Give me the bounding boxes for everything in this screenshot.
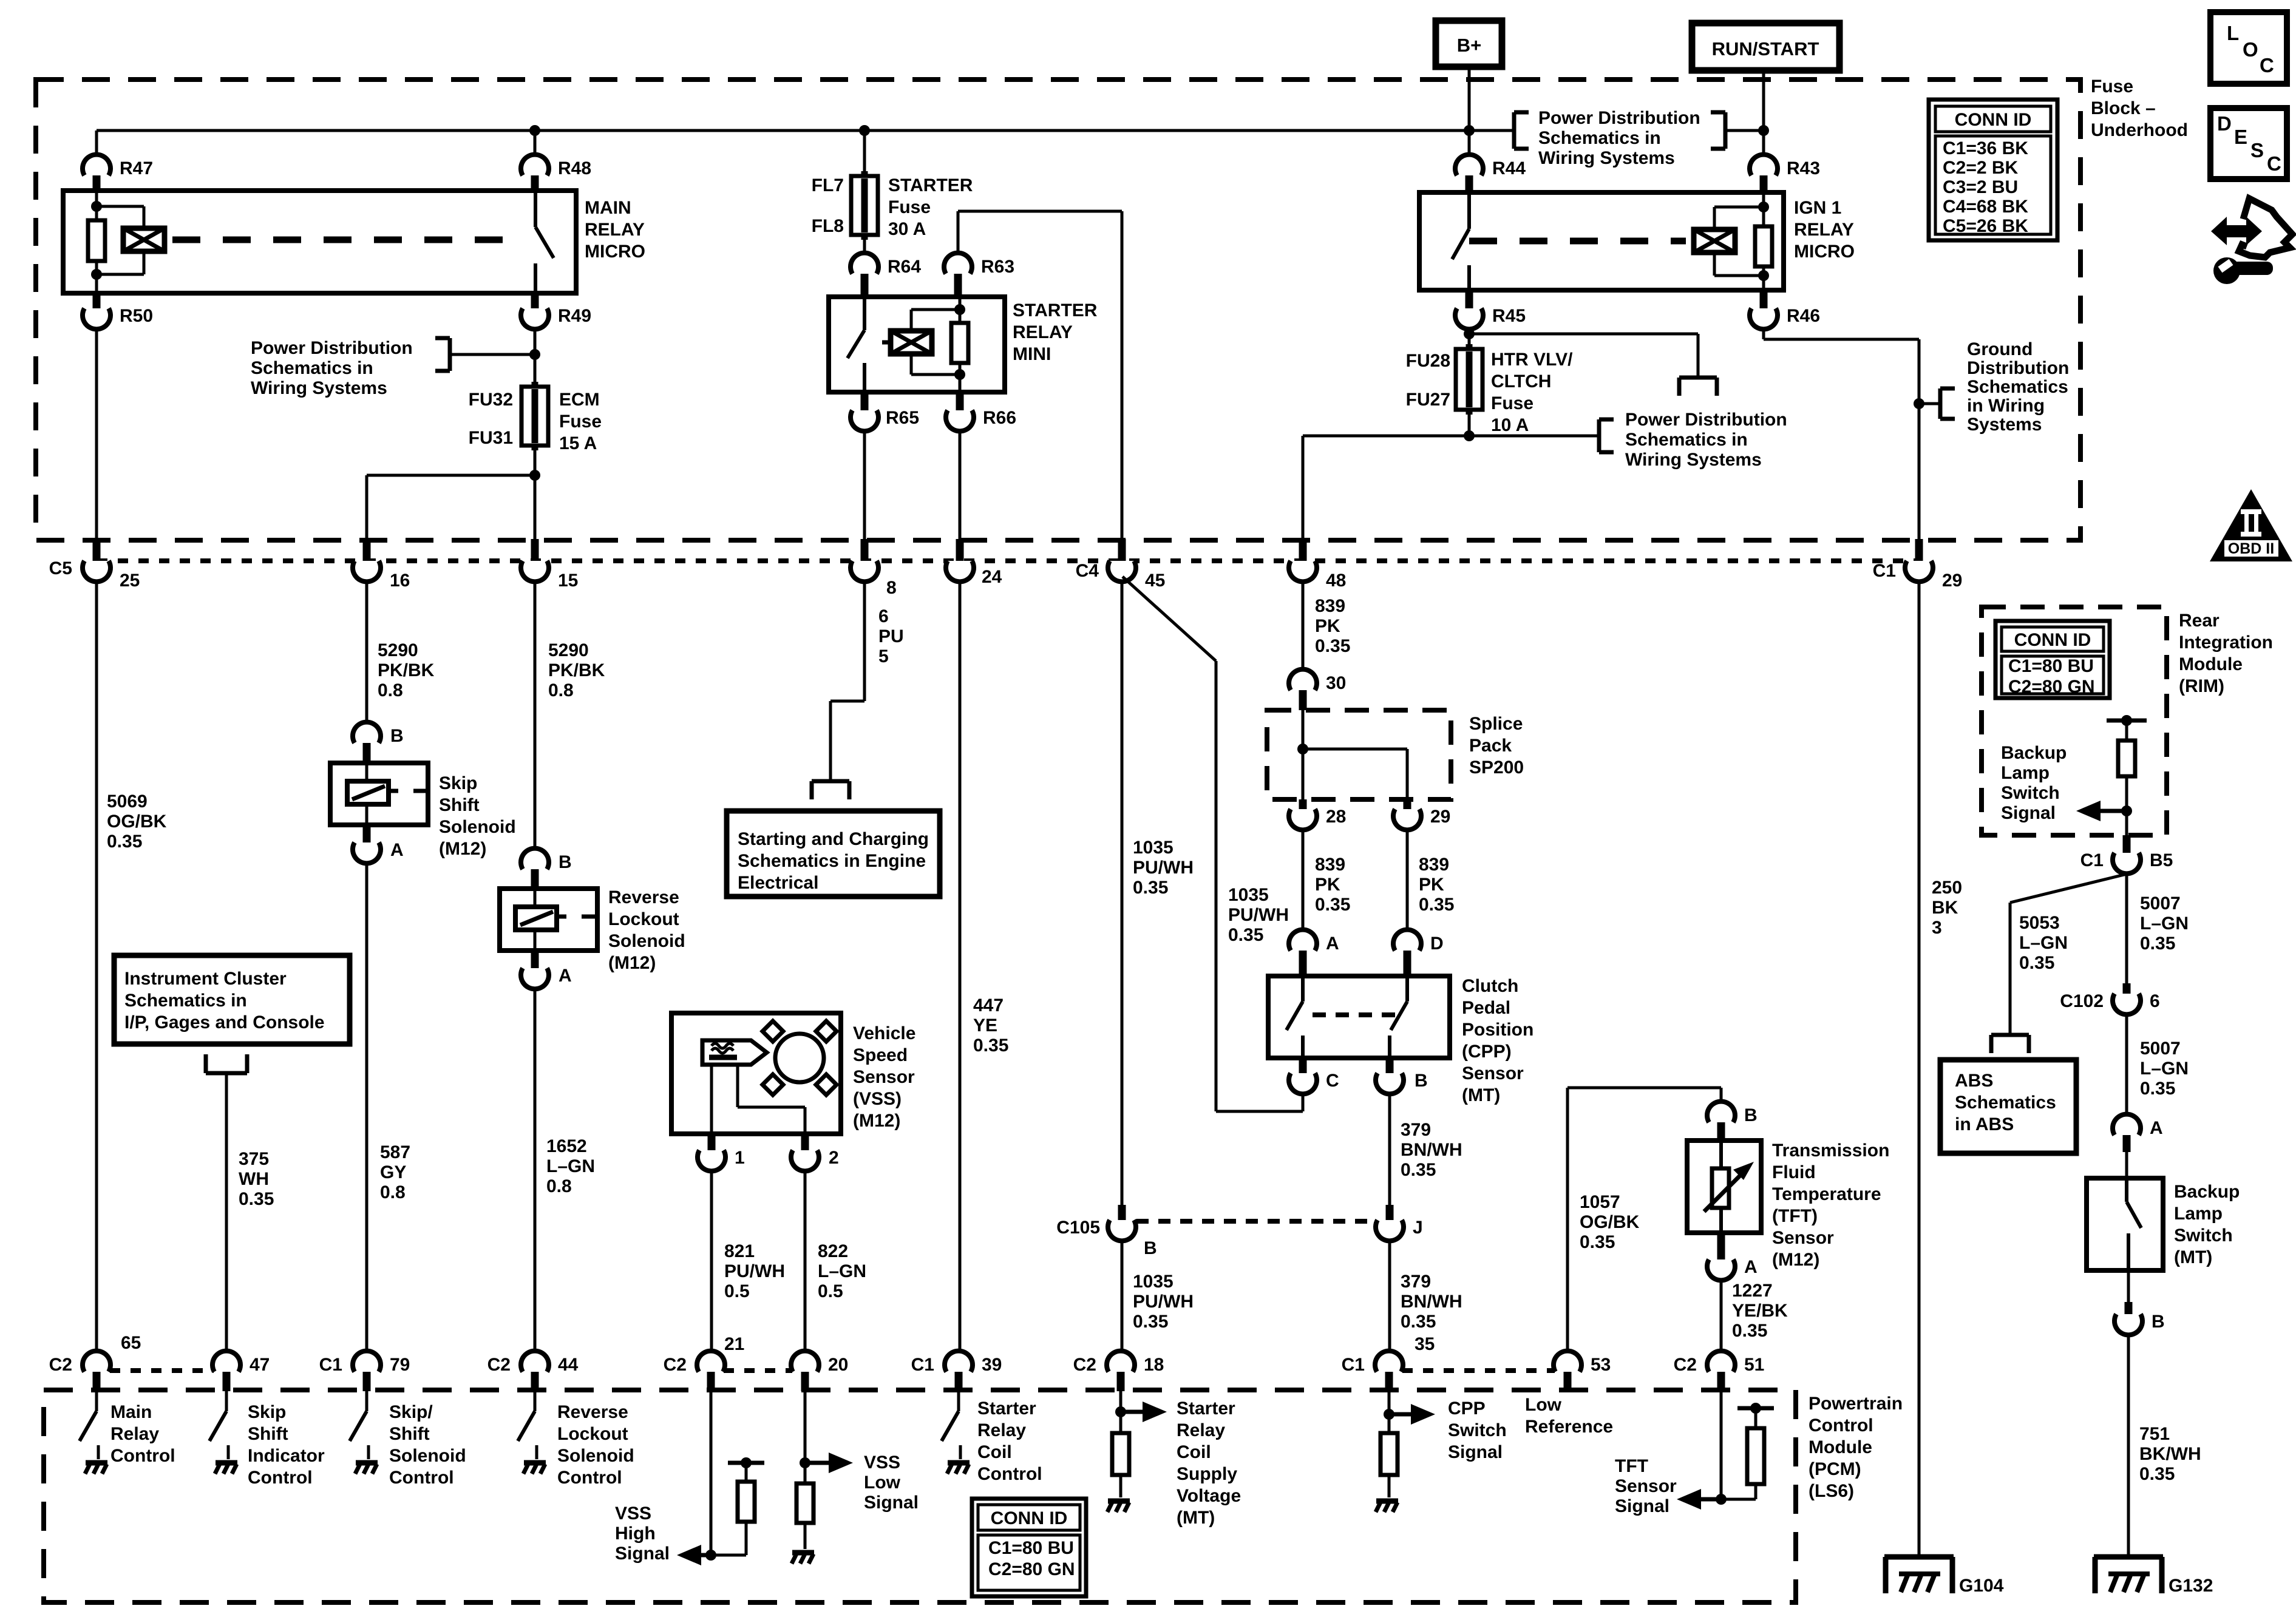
- svg-text:39: 39: [982, 1355, 1002, 1375]
- svg-text:Powertrain: Powertrain: [1809, 1394, 1903, 1414]
- connector R43: [1750, 155, 1778, 175]
- svg-text:ECM: ECM: [559, 390, 600, 410]
- svg-text:0.8: 0.8: [546, 1176, 572, 1196]
- svg-text:C5: C5: [49, 558, 72, 578]
- connector B backup lamp switch: [2127, 1270, 2130, 1302]
- svg-text:Splice: Splice: [1469, 714, 1523, 734]
- svg-text:Control: Control: [110, 1446, 175, 1466]
- reference box Starting and Charging: [727, 811, 940, 897]
- svg-text:Wiring Systems: Wiring Systems: [251, 378, 387, 398]
- svg-text:Skip: Skip: [439, 773, 477, 793]
- svg-text:Schematics in Engine: Schematics in Engine: [738, 851, 926, 871]
- svg-text:Relay: Relay: [977, 1420, 1026, 1440]
- svg-text:1057: 1057: [1580, 1192, 1620, 1212]
- svg-text:Schematics in: Schematics in: [1625, 430, 1748, 450]
- svg-text:Fuse: Fuse: [888, 197, 931, 217]
- PCM TFT sensor signal input: [1720, 1391, 1723, 1499]
- svg-text:L–GN: L–GN: [818, 1261, 866, 1281]
- svg-text:Signal: Signal: [615, 1544, 670, 1564]
- svg-text:WH: WH: [239, 1169, 269, 1189]
- svg-text:Integration: Integration: [2179, 632, 2273, 653]
- CPP left switch: [1301, 976, 1305, 1002]
- wire 5290 PK/BK (16): [365, 582, 369, 722]
- svg-text:R46: R46: [1787, 306, 1820, 326]
- solenoid box Reverse Lockout (M12): [500, 889, 597, 951]
- LOC info box: [2210, 12, 2287, 84]
- svg-text:0.35: 0.35: [2139, 1464, 2175, 1484]
- connector pin 39 PCM row: [945, 1351, 973, 1372]
- svg-text:(TFT): (TFT): [1772, 1206, 1818, 1226]
- svg-text:Position: Position: [1462, 1020, 1533, 1040]
- svg-text:0.8: 0.8: [380, 1182, 406, 1202]
- wire R47 drop: [95, 131, 98, 155]
- svg-text:RELAY: RELAY: [1794, 220, 1854, 240]
- wire R49 down: [534, 330, 537, 387]
- svg-text:Reverse: Reverse: [557, 1402, 628, 1422]
- svg-text:R44: R44: [1492, 158, 1526, 178]
- svg-text:Wiring Systems: Wiring Systems: [1625, 450, 1762, 470]
- svg-text:Relay: Relay: [110, 1424, 159, 1444]
- main relay switch: [534, 191, 537, 227]
- svg-text:R66: R66: [983, 408, 1016, 428]
- svg-text:Clutch: Clutch: [1462, 976, 1518, 996]
- wire 1035 PU/WH diagonal to CPP C: [1123, 577, 1216, 661]
- svg-text:45: 45: [1145, 571, 1165, 591]
- connector R47: [83, 155, 110, 175]
- svg-text:821: 821: [724, 1241, 755, 1261]
- svg-text:C2=2 BK: C2=2 BK: [1943, 158, 2019, 178]
- svg-text:0.35: 0.35: [2140, 934, 2175, 954]
- svg-text:1652: 1652: [546, 1136, 587, 1156]
- svg-text:STARTER: STARTER: [1013, 300, 1098, 320]
- svg-text:B: B: [559, 852, 572, 872]
- wire R66 to pin 24: [959, 432, 962, 540]
- svg-text:Schematics: Schematics: [1967, 377, 2068, 397]
- svg-text:CONN ID: CONN ID: [1955, 110, 2032, 130]
- svg-text:Signal: Signal: [2001, 803, 2056, 823]
- svg-text:5069: 5069: [107, 792, 148, 812]
- svg-text:839: 839: [1315, 596, 1345, 616]
- svg-text:C1=80 BU: C1=80 BU: [988, 1538, 1074, 1558]
- relay box STARTER RELAY MINI: [829, 297, 1005, 392]
- connector pin 29 fuse block row: [1915, 539, 1923, 566]
- svg-text:0.35: 0.35: [1228, 925, 1263, 945]
- svg-text:Main: Main: [110, 1402, 152, 1422]
- svg-text:1227: 1227: [1732, 1281, 1773, 1301]
- wire 1652 L-GN to pin 44: [534, 989, 537, 1351]
- svg-text:Rear: Rear: [2179, 611, 2220, 631]
- svg-text:Signal: Signal: [864, 1493, 919, 1513]
- svg-text:0.35: 0.35: [1401, 1160, 1436, 1180]
- svg-text:A: A: [1326, 934, 1339, 954]
- svg-text:Signal: Signal: [1615, 1496, 1669, 1516]
- svg-text:C3=2 BU: C3=2 BU: [1943, 177, 2018, 197]
- svg-text:1035: 1035: [1133, 1272, 1173, 1292]
- svg-text:Starting and Charging: Starting and Charging: [738, 829, 929, 849]
- svg-text:R48: R48: [558, 158, 591, 178]
- svg-text:Backup: Backup: [2001, 743, 2067, 763]
- connector pin 20 PCM row: [791, 1351, 819, 1372]
- solenoid box Skip Shift (M12): [330, 763, 428, 825]
- PCM VSS high signal input: [710, 1391, 713, 1555]
- svg-text:L–GN: L–GN: [546, 1156, 595, 1176]
- PCM switch starter relay coil control: [957, 1391, 960, 1411]
- svg-text:R50: R50: [120, 306, 153, 326]
- svg-text:D: D: [1430, 934, 1444, 954]
- connector R44: [1455, 155, 1483, 175]
- svg-text:R64: R64: [888, 257, 921, 277]
- svg-text:44: 44: [558, 1355, 579, 1375]
- svg-text:28: 28: [1326, 807, 1346, 827]
- svg-text:CLTCH: CLTCH: [1491, 371, 1551, 392]
- svg-text:Lockout: Lockout: [608, 909, 679, 929]
- fuse FU32/FU31 ECM 15A: [532, 382, 538, 450]
- connector line C5 row dotted: [97, 558, 1919, 563]
- svg-text:Fuse: Fuse: [1491, 393, 1533, 413]
- svg-text:PU/WH: PU/WH: [1133, 858, 1194, 878]
- dotted link 21-20: [724, 1368, 792, 1373]
- svg-text:PK: PK: [1419, 875, 1444, 895]
- connector 30: [1289, 670, 1317, 690]
- svg-text:Solenoid: Solenoid: [557, 1446, 634, 1466]
- wire 5069 OG/BK: [95, 582, 98, 1351]
- svg-text:BN/WH: BN/WH: [1401, 1140, 1462, 1160]
- svg-text:B: B: [1415, 1071, 1428, 1091]
- connector pin 8 fuse block row: [861, 539, 869, 566]
- starter relay coil circuit: [959, 297, 962, 323]
- connector R63: [944, 253, 972, 274]
- svg-text:Skip: Skip: [248, 1402, 286, 1422]
- connector A backup lamp switch: [2113, 1114, 2141, 1135]
- svg-text:1035: 1035: [1228, 885, 1269, 905]
- svg-text:Voltage: Voltage: [1177, 1486, 1241, 1506]
- svg-text:B+: B+: [1457, 35, 1482, 56]
- svg-text:SP200: SP200: [1469, 758, 1524, 778]
- svg-text:High: High: [615, 1524, 656, 1544]
- svg-text:839: 839: [1419, 855, 1449, 875]
- junction dot B+ bus: [1464, 125, 1475, 136]
- svg-text:(RIM): (RIM): [2179, 676, 2224, 696]
- RIM dashed box: [1982, 607, 2167, 835]
- connector C105 B: [1118, 1205, 1126, 1220]
- svg-text:PU/WH: PU/WH: [724, 1261, 785, 1281]
- wire 821 PU/WH: [710, 1171, 713, 1351]
- svg-text:MICRO: MICRO: [1794, 242, 1855, 262]
- connector pin 18 PCM row: [1107, 1351, 1135, 1372]
- svg-text:Reverse: Reverse: [608, 887, 679, 907]
- svg-text:OG/BK: OG/BK: [107, 812, 167, 832]
- svg-text:PK: PK: [1315, 875, 1340, 895]
- svg-text:L–GN: L–GN: [2019, 933, 2068, 953]
- connector C1 B5: [2123, 835, 2131, 853]
- svg-text:65: 65: [121, 1333, 141, 1353]
- svg-text:R45: R45: [1492, 306, 1526, 326]
- svg-text:CPP: CPP: [1448, 1398, 1486, 1419]
- bracket from instrument cluster: [206, 1071, 247, 1076]
- svg-text:1035: 1035: [1133, 838, 1173, 858]
- sensor box Vehicle Speed Sensor VSS: [671, 1013, 841, 1134]
- power tap B+: [1436, 21, 1502, 67]
- svg-text:C102: C102: [2060, 991, 2104, 1011]
- sensor box TFT: [1687, 1141, 1761, 1233]
- svg-text:A: A: [2150, 1118, 2163, 1138]
- svg-text:5: 5: [878, 646, 889, 666]
- svg-text:10 A: 10 A: [1491, 415, 1529, 435]
- svg-text:0.35: 0.35: [107, 832, 142, 852]
- connector 2 VSS: [801, 1134, 809, 1150]
- svg-text:21: 21: [724, 1334, 744, 1354]
- svg-text:Lamp: Lamp: [2174, 1204, 2223, 1224]
- svg-text:Pedal: Pedal: [1462, 998, 1510, 1018]
- wire 822 L-GN: [804, 1171, 807, 1351]
- tool icon double arrow: [2211, 217, 2262, 245]
- svg-text:(M12): (M12): [853, 1111, 900, 1131]
- svg-text:CONN ID: CONN ID: [2014, 630, 2091, 650]
- wire B+ bus: [97, 129, 1469, 132]
- svg-text:51: 51: [1744, 1355, 1764, 1375]
- PCM switch skip shift indicator: [225, 1391, 228, 1411]
- svg-text:Solenoid: Solenoid: [439, 817, 516, 837]
- svg-text:Systems: Systems: [1967, 415, 2042, 435]
- wire 379 BN/WH (J to 35): [1388, 1241, 1391, 1351]
- svg-text:C1=80 BU: C1=80 BU: [2008, 656, 2094, 676]
- wire 839 PK (48): [1302, 582, 1305, 669]
- svg-text:(M12): (M12): [1772, 1250, 1819, 1270]
- svg-text:A: A: [390, 840, 404, 860]
- branch to pin 16: [367, 474, 535, 477]
- wire R48 drop: [534, 131, 537, 155]
- connector D CPP: [1393, 930, 1421, 951]
- svg-text:(CPP): (CPP): [1462, 1042, 1512, 1062]
- svg-text:6: 6: [878, 606, 889, 626]
- svg-text:Lockout: Lockout: [557, 1424, 628, 1444]
- reference box ABS Schematics: [1940, 1060, 2076, 1153]
- svg-text:1: 1: [735, 1148, 745, 1168]
- dashed connector link C105-J: [1136, 1219, 1375, 1224]
- svg-text:MICRO: MICRO: [585, 242, 645, 262]
- svg-text:Electrical: Electrical: [738, 873, 818, 893]
- wire 379 BN/WH (B to J): [1388, 1094, 1391, 1205]
- svg-text:PK/BK: PK/BK: [548, 660, 605, 680]
- svg-text:3: 3: [1932, 918, 1942, 938]
- connector pin 48 fuse block row: [1299, 539, 1307, 566]
- svg-text:C2: C2: [49, 1355, 72, 1375]
- svg-text:Wiring Systems: Wiring Systems: [1538, 148, 1675, 168]
- TFT thermistor arrow: [1704, 1173, 1743, 1212]
- wire 5290 PK/BK (15): [534, 582, 537, 848]
- svg-text:GY: GY: [380, 1162, 406, 1182]
- PCM switch skip shift solenoid: [365, 1391, 369, 1411]
- svg-text:Speed: Speed: [853, 1045, 908, 1065]
- connector pin 25 fuse block row: [93, 539, 101, 566]
- svg-text:R43: R43: [1787, 158, 1820, 178]
- PCM VSS low signal input: [804, 1391, 807, 1483]
- svg-text:Module: Module: [1809, 1437, 1872, 1457]
- svg-text:0.35: 0.35: [2140, 1079, 2175, 1099]
- connector pin 45 fuse block row: [1118, 539, 1126, 566]
- svg-text:Vehicle: Vehicle: [853, 1023, 915, 1043]
- ground G132: [2094, 1554, 2163, 1560]
- svg-text:379: 379: [1401, 1120, 1431, 1140]
- svg-text:0.8: 0.8: [378, 680, 403, 700]
- svg-text:Skip/: Skip/: [389, 1402, 433, 1422]
- svg-text:(LS6): (LS6): [1809, 1481, 1854, 1501]
- svg-text:Shift: Shift: [439, 795, 480, 815]
- svg-text:PU: PU: [878, 626, 904, 646]
- svg-text:C1: C1: [1342, 1355, 1365, 1375]
- svg-text:16: 16: [390, 571, 410, 591]
- connector pin 53 PCM row: [1554, 1351, 1581, 1372]
- svg-text:15: 15: [558, 571, 578, 591]
- svg-text:MINI: MINI: [1013, 344, 1051, 364]
- svg-text:O: O: [2243, 38, 2258, 61]
- PCM switch reverse lockout solenoid: [534, 1391, 537, 1411]
- svg-text:18: 18: [1144, 1355, 1164, 1375]
- VSS reluctor wheel: [775, 1034, 824, 1082]
- ground G104: [1884, 1554, 1954, 1560]
- svg-text:Switch: Switch: [2174, 1225, 2233, 1246]
- svg-text:0.35: 0.35: [1315, 895, 1350, 915]
- wire 250 BK to G104: [1918, 582, 1921, 1557]
- wire 587 GY to pin 79: [365, 864, 369, 1351]
- wire RUN/START to R43: [1762, 70, 1765, 155]
- svg-text:587: 587: [380, 1142, 410, 1162]
- svg-text:D: D: [2217, 112, 2232, 135]
- svg-text:0.5: 0.5: [818, 1281, 843, 1301]
- wire B+ to bus: [1468, 67, 1471, 155]
- bracket ground distribution: [1919, 402, 1940, 405]
- svg-text:0.35: 0.35: [1133, 878, 1168, 898]
- svg-text:I/P, Gages and Console: I/P, Gages and Console: [124, 1012, 325, 1032]
- svg-text:Power Distribution: Power Distribution: [1625, 410, 1787, 430]
- wire 751 BK/WH to G132: [2127, 1335, 2130, 1557]
- svg-text:B5: B5: [2150, 850, 2173, 870]
- svg-text:C2: C2: [487, 1355, 511, 1375]
- svg-text:L–GN: L–GN: [2140, 1059, 2189, 1079]
- CONN ID table PCM: [972, 1499, 1086, 1596]
- svg-text:C2: C2: [1674, 1355, 1697, 1375]
- svg-text:Temperature: Temperature: [1772, 1184, 1881, 1204]
- svg-text:30 A: 30 A: [888, 219, 926, 239]
- connector A skip shift: [363, 825, 371, 842]
- svg-text:0.35: 0.35: [1580, 1232, 1615, 1252]
- svg-text:PU/WH: PU/WH: [1228, 905, 1289, 925]
- svg-text:(MT): (MT): [1462, 1085, 1500, 1105]
- bracket goes-to power distribution: [1679, 376, 1717, 380]
- svg-text:HTR VLV/: HTR VLV/: [1491, 350, 1573, 370]
- connector pin 47 PCM row: [212, 1351, 240, 1372]
- connector pin 44 PCM row: [521, 1351, 549, 1372]
- svg-text:Control: Control: [1809, 1415, 1873, 1436]
- svg-text:C5=26 BK: C5=26 BK: [1943, 216, 2028, 236]
- svg-text:0.5: 0.5: [724, 1281, 750, 1301]
- svg-text:FU27: FU27: [1406, 390, 1450, 410]
- CPP right switch: [1405, 976, 1409, 1002]
- svg-text:R65: R65: [886, 408, 919, 428]
- svg-text:TFT: TFT: [1615, 1456, 1648, 1476]
- svg-text:250: 250: [1932, 878, 1962, 898]
- svg-text:0.35: 0.35: [239, 1189, 274, 1209]
- svg-text:53: 53: [1591, 1355, 1611, 1375]
- connector R50: [93, 293, 101, 308]
- connector R66: [956, 392, 964, 410]
- wire FL7 drop: [863, 131, 866, 177]
- svg-text:C2=80 GN: C2=80 GN: [988, 1559, 1075, 1579]
- connector R49: [531, 293, 539, 308]
- svg-text:STARTER: STARTER: [888, 175, 973, 195]
- svg-text:L: L: [2227, 22, 2239, 44]
- svg-text:24: 24: [982, 567, 1002, 587]
- wire FU27 to pin 48 tee: [1468, 410, 1471, 436]
- svg-text:Block –: Block –: [2091, 98, 2156, 118]
- svg-text:(PCM): (PCM): [1809, 1459, 1861, 1479]
- svg-text:(M12): (M12): [439, 839, 486, 859]
- svg-text:379: 379: [1401, 1272, 1431, 1292]
- wire FL8 to R64: [863, 235, 866, 253]
- bracket power distribution (fuse): [1469, 435, 1599, 438]
- svg-text:C1: C1: [2080, 850, 2104, 870]
- svg-text:CONN ID: CONN ID: [991, 1508, 1068, 1528]
- svg-text:VSS: VSS: [615, 1503, 651, 1524]
- junction dot RUN/START: [1758, 125, 1769, 136]
- svg-text:G132: G132: [2169, 1576, 2213, 1596]
- svg-text:Relay: Relay: [1177, 1420, 1225, 1440]
- connector 29: [1404, 799, 1411, 809]
- svg-text:C1: C1: [911, 1355, 934, 1375]
- svg-text:PK: PK: [1315, 616, 1340, 636]
- bracket to power distribution right: [1725, 129, 1764, 132]
- svg-text:Coil: Coil: [977, 1442, 1012, 1462]
- svg-text:Control: Control: [389, 1468, 454, 1488]
- svg-text:A: A: [559, 966, 572, 986]
- tool icon outline: [2239, 198, 2292, 257]
- svg-text:5053: 5053: [2019, 913, 2060, 933]
- svg-text:C4=68 BK: C4=68 BK: [1943, 197, 2028, 217]
- svg-text:S: S: [2250, 139, 2264, 161]
- backup lamp switch arm: [2125, 1178, 2128, 1202]
- connector R45: [1466, 290, 1473, 308]
- wire 1227 YE/BK: [1720, 1281, 1723, 1351]
- svg-text:(VSS): (VSS): [853, 1089, 902, 1109]
- svg-text:C2: C2: [664, 1355, 687, 1375]
- svg-text:Shift: Shift: [248, 1424, 288, 1444]
- svg-text:in ABS: in ABS: [1955, 1114, 2014, 1134]
- connector R64: [851, 253, 878, 274]
- svg-text:Sensor: Sensor: [1772, 1228, 1834, 1248]
- bracket goes-to ABS: [1991, 1033, 2029, 1037]
- svg-text:Ground: Ground: [1967, 339, 2033, 359]
- svg-text:Underhood: Underhood: [2091, 120, 2188, 140]
- RIM backup lamp switch signal circuit: [2107, 719, 2147, 723]
- wire 5053 L-GN to ABS: [2010, 874, 2127, 903]
- svg-text:8: 8: [886, 578, 897, 598]
- svg-text:Fluid: Fluid: [1772, 1162, 1816, 1182]
- svg-text:0.8: 0.8: [548, 680, 574, 700]
- VSS internal wires: [710, 1065, 713, 1134]
- svg-text:C2: C2: [1073, 1355, 1096, 1375]
- svg-text:Schematics in: Schematics in: [1538, 128, 1661, 148]
- svg-text:MAIN: MAIN: [585, 198, 631, 218]
- svg-text:FL8: FL8: [812, 216, 844, 236]
- svg-text:5007: 5007: [2140, 893, 2181, 914]
- svg-text:Supply: Supply: [1177, 1464, 1237, 1484]
- svg-text:FU32: FU32: [469, 390, 513, 410]
- svg-text:C: C: [2267, 152, 2281, 175]
- bracket power distribution (R49): [450, 353, 535, 356]
- IGN1 relay coil circuit: [1762, 192, 1765, 226]
- wire 5007 L-GN to backup lamp switch: [2125, 1015, 2128, 1114]
- svg-text:FU31: FU31: [469, 428, 513, 448]
